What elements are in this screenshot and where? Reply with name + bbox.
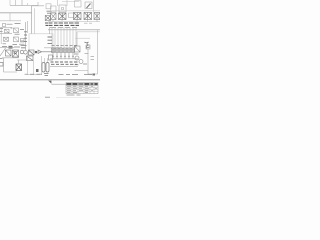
pilot arrowheads [48, 37, 53, 44]
cooler squiggle [85, 42, 90, 48]
wire drops mid [28, 52, 48, 75]
valve V7b [14, 28, 19, 33]
valve body V2 [59, 13, 67, 20]
flow arrow [48, 81, 51, 84]
wire stack drop [49, 27, 51, 34]
wire head risers [58, 0, 94, 12]
label PS1 [47, 11, 52, 13]
valve V10 [75, 46, 81, 52]
sol valve SVC [60, 48, 63, 53]
cluster scribble text [0, 24, 25, 47]
wire frame left [31, 6, 33, 34]
cluster text row [21, 46, 27, 48]
note text under table [67, 94, 81, 96]
wire group base [2, 57, 19, 59]
wire riser B [15, 0, 17, 6]
table frame [66, 83, 98, 94]
reservoir box [29, 34, 53, 52]
wire second rail [77, 31, 100, 33]
sol valve SVB [56, 48, 59, 53]
sol valve stems [53, 53, 73, 59]
wire collector [48, 29, 100, 31]
ramp line [0, 48, 6, 56]
bottom rule [56, 97, 100, 99]
wire riser A [9, 0, 11, 6]
wire left drop [4, 58, 18, 72]
pump P3 inner [14, 52, 16, 54]
wire manifold rail [50, 10, 100, 12]
motor M1 [6, 50, 12, 56]
wire left rail [0, 27, 2, 44]
pump P1 [85, 2, 92, 9]
wire suction line [42, 51, 53, 53]
wire right rail top [76, 32, 78, 46]
drain plug [36, 69, 39, 72]
accumulator A1 [42, 63, 45, 73]
floor line [0, 79, 100, 81]
wire cluster hlines [0, 28, 12, 34]
valve V8b [14, 37, 19, 42]
wire manifold top [50, 58, 78, 60]
strainer S1 [38, 50, 42, 54]
wire frame inner [34, 8, 36, 33]
label band PORT names [45, 23, 79, 25]
manifold block MB1 [49, 55, 53, 60]
wire bottom mid [27, 74, 41, 76]
coupling [85, 54, 95, 60]
right pump group [75, 45, 95, 64]
solenoid box SV1 [16, 64, 22, 71]
tick D [27, 3, 29, 6]
wire double drop [27, 21, 29, 33]
table text [67, 87, 97, 93]
wire right branch [75, 37, 90, 39]
wire top pilot line [10, 5, 38, 7]
pump P4 [75, 56, 79, 60]
lower-mid valves [27, 56, 34, 61]
valve V7a [5, 29, 10, 33]
wire tick [37, 2, 39, 6]
accumulator A2 [46, 63, 49, 73]
wire body stubs [53, 20, 97, 23]
left manifold cluster [3, 24, 25, 43]
valve U4 head [75, 1, 82, 7]
legend text row 1 [25, 73, 93, 75]
label band row3 [50, 26, 77, 28]
wire lower rail [48, 20, 100, 22]
wire riser C [21, 0, 23, 6]
aux box [86, 45, 90, 49]
valve U2 head [59, 5, 66, 12]
title block table [66, 83, 98, 94]
sol valve SVA [52, 48, 55, 53]
valve body V3 [69, 13, 75, 18]
valve V0 [45, 16, 50, 21]
note label [44, 74, 49, 76]
wire cluster base [0, 47, 14, 49]
group text [74, 54, 87, 65]
valve body V4 [74, 13, 82, 20]
pump P3 [13, 50, 19, 57]
wire arrow line [52, 83, 67, 85]
wire to frame [9, 13, 11, 21]
wire mid join [44, 47, 62, 49]
valve row labels [52, 44, 78, 46]
pump dark dot [35, 51, 37, 53]
wire manifold bottom [50, 66, 78, 68]
wire right group [75, 49, 98, 74]
valve body V6 [94, 13, 100, 20]
solenoid valve row [52, 48, 75, 59]
valve body V5 [84, 13, 92, 20]
sol valve SVF [72, 48, 75, 53]
wire branch [0, 20, 21, 22]
page number [45, 96, 50, 98]
gauge G1 [20, 50, 24, 54]
pressure switch PS1 [46, 4, 51, 9]
pump P5 [79, 60, 83, 64]
pump blob P2 [9, 46, 13, 49]
wire far right rail [97, 30, 99, 74]
drain blob [93, 74, 96, 76]
left port fitting [0, 59, 3, 67]
band tail marks [84, 22, 92, 24]
valve body V1 [51, 13, 57, 20]
valve U1 head [51, 6, 57, 12]
header cells [66, 83, 71, 85]
sol valve SVD [64, 48, 67, 53]
valve V8 [4, 37, 9, 41]
node arrows [24, 32, 27, 42]
relief valve RV1 [21, 38, 25, 42]
wire cluster bus [25, 22, 27, 50]
wire frame top [32, 5, 45, 7]
wire main return line [0, 12, 32, 14]
sol valve SVE [68, 48, 71, 53]
valve V9 [29, 50, 35, 55]
wire to solenoid [17, 60, 28, 64]
wire header link [62, 1, 79, 3]
table grid [66, 86, 98, 92]
sol valve feet [52, 55, 74, 57]
wire drop lines [52, 27, 76, 48]
solenoid S2 [3, 24, 6, 27]
port label row [51, 62, 78, 64]
